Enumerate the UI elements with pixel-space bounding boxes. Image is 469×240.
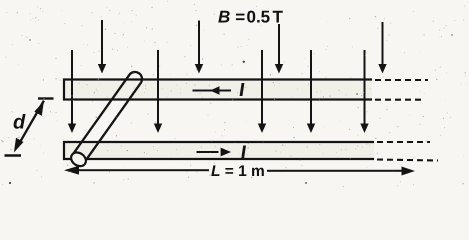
rod end face ellipse xyxy=(68,150,88,169)
field arrow B1 (short, above top rail) xyxy=(98,20,106,74)
rail bottom (lower conducting rail) xyxy=(64,142,374,159)
svg-text:d: d xyxy=(13,112,26,134)
field arrow B8 (long, through top rail) xyxy=(307,50,315,133)
dimension L: double-headed horizontal arrow xyxy=(64,166,415,176)
field arrow B9 (long, through top rail) xyxy=(360,50,368,133)
current arrow I2 (lower rail, pointing right) xyxy=(197,148,232,157)
field arrow B5 (long, through top rail) xyxy=(68,50,76,133)
scan speckles xyxy=(1,1,467,188)
field arrow B4 (short, above top rail) xyxy=(378,22,386,74)
label I2 xyxy=(241,146,246,159)
rail top dashed extension xyxy=(375,80,428,100)
dimension d: bottom tick xyxy=(5,154,22,156)
svg-text:B=0.5T: B=0.5T xyxy=(218,8,284,27)
dimension d: double-headed slanted arrow xyxy=(14,100,45,153)
field arrow B7 (long, through top rail) xyxy=(258,50,266,133)
svg-text:L = 1 m: L = 1 m xyxy=(211,163,265,180)
rail texture speckles xyxy=(70,81,370,156)
rail bottom dashed extension xyxy=(377,142,438,161)
rod (sliding cylinder) xyxy=(73,72,142,163)
current arrow I1 (upper rail, pointing left) xyxy=(193,86,232,95)
field arrow B3 (short, above top rail) xyxy=(275,24,283,74)
dimension d: top tick xyxy=(38,97,54,99)
rail top (upper conducting rail) xyxy=(64,80,372,100)
field arrow B6 (long, through top rail) xyxy=(154,50,162,133)
paper background xyxy=(0,0,469,188)
field arrow B2 (short, above top rail) xyxy=(195,21,203,74)
label I1 xyxy=(240,83,245,96)
